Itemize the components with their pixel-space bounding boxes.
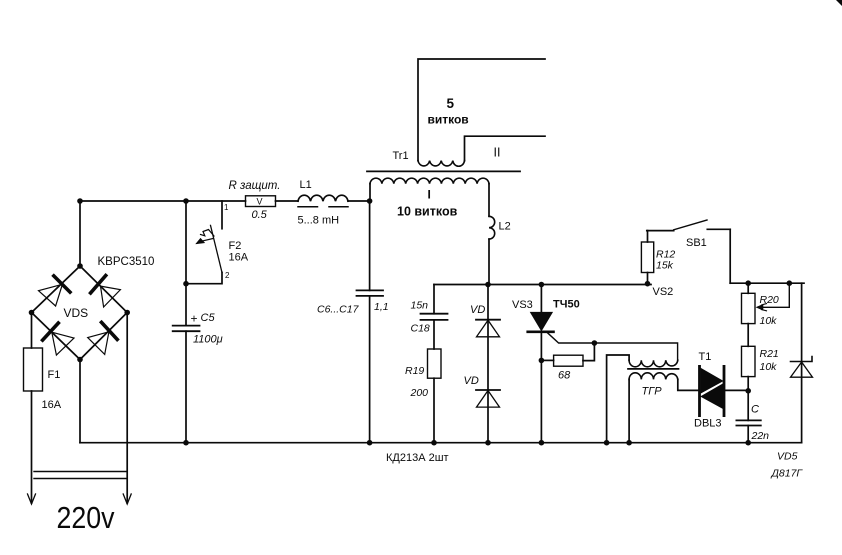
bridge diode D-topright triangle	[101, 286, 121, 307]
svg-text:R19: R19	[405, 365, 424, 377]
svg-text:1: 1	[224, 203, 229, 212]
diac T1 lower triangle	[701, 384, 723, 409]
diac T1 DBL3 right electrode	[723, 366, 726, 415]
node: primary/L1	[367, 198, 373, 204]
svg-text:Д817Г: Д817Г	[771, 468, 804, 480]
svg-text:C6...C17: C6...C17	[317, 304, 360, 316]
svg-text:68: 68	[558, 370, 571, 382]
node VS2	[645, 281, 651, 287]
wire: R19 to bottom bus	[433, 378, 435, 443]
node: bottom bus TGR-a	[604, 440, 610, 446]
wire: left AC leg down to fuse	[31, 313, 33, 349]
wire: resonant cap branch upper	[369, 201, 371, 290]
arrowhead right 220v	[123, 494, 131, 504]
bridge diode D-topleft triangle	[39, 284, 63, 306]
capacitor C plates	[736, 419, 760, 421]
svg-text:10k: 10k	[760, 361, 778, 373]
node: L1 bus left	[77, 198, 83, 204]
node: bridge right	[124, 310, 130, 316]
resistor R20 body	[742, 293, 756, 323]
wire: R12 bottom to node VS2	[647, 273, 649, 284]
fuse F1 body	[24, 348, 43, 391]
svg-text:10k: 10k	[760, 315, 778, 327]
svg-text:SB1: SB1	[686, 237, 707, 249]
bridge diode D-topleft bar	[54, 276, 70, 292]
node: R21 / diac / C	[745, 388, 751, 394]
wire: C5 vertical x=186 upper	[185, 201, 187, 326]
thyristor VS3 triangle	[531, 312, 553, 330]
svg-text:T1: T1	[699, 351, 712, 363]
svg-text:220v: 220v	[57, 500, 115, 535]
resistor 68 left lead	[541, 359, 553, 361]
transformer Tr1 core line	[367, 170, 520, 172]
switch SB1 left contact	[647, 230, 674, 232]
resistor 68 body	[554, 355, 583, 366]
svg-text:200: 200	[410, 387, 429, 399]
node: wiper top	[787, 280, 793, 286]
node: bottom bus TGR-b	[626, 440, 632, 446]
capacitor C6...C17 plates	[357, 289, 384, 291]
svg-text:16A: 16A	[42, 399, 62, 411]
svg-text:VD5: VD5	[777, 451, 798, 463]
wire: diac right lead	[724, 389, 748, 391]
node: bottom bus R19	[431, 440, 437, 446]
svg-text:15k: 15k	[656, 260, 674, 272]
node: F2 return on C5 line	[183, 281, 189, 287]
wire: C18 branch corner down	[433, 285, 435, 314]
svg-text:C: C	[751, 404, 759, 416]
diode VD lower triangle	[477, 391, 500, 408]
node: bottom bus VD	[485, 440, 491, 446]
svg-text:витков: витков	[428, 113, 469, 127]
node: bridge bottom	[77, 357, 83, 363]
svg-text:10 витков: 10 витков	[397, 205, 458, 219]
zener VD5 cathode bar with tick	[791, 357, 813, 362]
svg-text:КД213А 2шт: КД213А 2шт	[386, 452, 449, 464]
wire: R12 top lead	[647, 231, 649, 242]
svg-text:22n: 22n	[751, 430, 770, 442]
wire: fuse to connector / arrow shaft	[31, 391, 33, 503]
resistor 68 right lead up to gate node	[583, 343, 594, 361]
wire: bottom bus	[80, 442, 802, 444]
wire: primary left leg	[369, 184, 371, 201]
connector plug bars	[34, 471, 127, 473]
diode VD lower bar	[476, 389, 500, 391]
svg-text:1,1: 1,1	[374, 301, 389, 313]
svg-text:VDS: VDS	[64, 306, 89, 320]
breaker F2 hook actuator	[201, 230, 215, 237]
wire: box to L1	[276, 200, 299, 202]
node: bottom bus VS3	[539, 440, 545, 446]
svg-text:I: I	[428, 188, 431, 202]
inductor L1 coil	[298, 195, 348, 201]
wire: vertical x=80 down to bridge top	[79, 201, 81, 266]
node: bottom bus C6 branch	[367, 440, 373, 446]
resistor R21 body	[742, 346, 756, 376]
wire: C bottom	[747, 426, 749, 443]
arrowhead left 220v	[28, 494, 36, 504]
node: bottom bus C5	[183, 440, 189, 446]
svg-text:2: 2	[225, 271, 230, 280]
wire: SB1 right leg down	[729, 229, 731, 283]
svg-text:V: V	[257, 197, 263, 207]
svg-text:KBPC3510: KBPC3510	[98, 256, 155, 268]
breaker F2 blade	[211, 225, 223, 272]
svg-text:F1: F1	[48, 369, 61, 381]
node: bridge top	[77, 263, 83, 269]
svg-text:VS2: VS2	[653, 286, 674, 298]
switch SB1 right contact	[707, 228, 730, 230]
wire: mid horizontal bus y=284.5	[434, 284, 651, 286]
wire: L1 to primary node	[348, 200, 370, 202]
svg-text:+: +	[191, 312, 198, 326]
svg-text:C18: C18	[411, 323, 430, 335]
svg-text:C5: C5	[201, 312, 216, 324]
wire: secondary right leg and second output	[465, 136, 546, 160]
wire: L2 down to mid bus	[488, 239, 490, 284]
svg-text:R защит.: R защит.	[229, 180, 281, 192]
inductor L1 core dashes	[298, 206, 318, 208]
svg-text:16A: 16A	[229, 252, 249, 264]
thyristor VS3 anode lead	[540, 285, 542, 313]
wire: right AC leg down	[126, 313, 128, 504]
bridge diode D-bottomright bar	[102, 322, 118, 339]
wire: secondary left leg up and top output	[418, 59, 545, 161]
node: mid bus / VS3	[539, 282, 545, 288]
wire: TGR upper-left jog down to bottom bus	[607, 355, 630, 443]
svg-text:VD: VD	[470, 304, 485, 316]
wire: C5 vertical lower	[185, 331, 187, 443]
node: gate / 68	[592, 340, 598, 346]
diode VD upper triangle	[477, 320, 500, 337]
wire: VD column vertical	[487, 285, 489, 443]
svg-text:ТЧ50: ТЧ50	[553, 299, 580, 311]
wire: TGR lower-left leg to bottom bus	[628, 379, 630, 442]
node: VS3 cathode / 68	[539, 358, 545, 364]
wire: upper-right bus to zener top	[730, 282, 804, 284]
wire: primary right leg to L2	[488, 184, 490, 217]
svg-text:R20: R20	[760, 294, 779, 306]
resistor R-protect box	[246, 196, 276, 207]
svg-text:L2: L2	[499, 221, 511, 233]
transformer Tr1 secondary winding II	[418, 161, 465, 167]
wire: zener VD5 vertical	[801, 283, 803, 443]
bridge diode D-bottomright triangle	[88, 332, 109, 355]
corner artifact mark	[836, 0, 842, 6]
svg-text:5: 5	[447, 96, 455, 111]
node: R20 top	[745, 280, 751, 286]
thyristor VS3 gate lead	[548, 333, 678, 360]
svg-text:15n: 15n	[411, 300, 429, 312]
svg-text:VD: VD	[464, 375, 479, 387]
bridge diode D-bottomleft bar	[43, 323, 59, 340]
node: bottom bus C	[745, 440, 751, 446]
wire: resonant cap branch lower	[369, 296, 371, 443]
breaker F2 terminal 1 drop	[221, 201, 223, 229]
node: C5 top	[183, 198, 189, 204]
potentiometer R20 wiper wire	[760, 283, 789, 307]
transformer TGR lower winding	[629, 373, 678, 380]
wire: C18 to R19	[433, 320, 435, 349]
wire: TGR lower-right leg to diac	[678, 379, 700, 390]
node: mid bus / L2	[485, 282, 491, 288]
switch SB1 blade	[674, 220, 707, 230]
thyristor VS3 cathode bar	[528, 330, 554, 333]
transformer TGR upper winding	[629, 360, 678, 367]
wire: R20 to R21	[747, 324, 749, 347]
svg-text:5...8 mH: 5...8 mH	[298, 215, 340, 227]
bridge diode D-topright bar	[91, 276, 106, 293]
svg-text:1100μ: 1100μ	[193, 334, 223, 346]
potentiometer R20 wiper arrowhead	[756, 304, 763, 310]
svg-text:L1: L1	[300, 179, 312, 191]
diode bridge VDS KBPC3510 : diamond	[32, 266, 128, 360]
svg-text:ТГР: ТГР	[642, 386, 663, 398]
wire: VS3 cathode down to bottom bus	[540, 332, 542, 443]
wire: bridge bottom to ground bus	[79, 360, 81, 443]
node: bridge left	[29, 310, 35, 316]
transformer TGR core line	[628, 368, 679, 370]
wire: top-left horizontal bus y=201	[80, 200, 246, 202]
capacitor C18 plates	[421, 313, 448, 315]
transformer Tr1 primary winding I	[370, 178, 489, 184]
zener VD5 triangle	[791, 362, 813, 377]
bridge diode D-bottomleft triangle	[52, 332, 74, 355]
capacitor C5 plates	[173, 325, 200, 327]
diac T1 DBL3 left electrode	[698, 366, 701, 415]
wire: R21 bottom to node	[747, 377, 749, 421]
svg-text:F2: F2	[229, 240, 242, 252]
resistor R12 body	[641, 242, 653, 273]
diac T1 upper triangle	[701, 369, 723, 394]
svg-text:II: II	[494, 146, 501, 160]
inductor L2	[489, 216, 495, 239]
wire: R20 top stub	[747, 283, 749, 293]
breaker F2 terminal 2 and return wire	[186, 273, 222, 284]
svg-text:0.5: 0.5	[252, 209, 268, 221]
svg-text:DBL3: DBL3	[694, 418, 722, 430]
svg-text:R21: R21	[760, 348, 779, 360]
resistor R19 body	[428, 349, 442, 378]
svg-text:VS3: VS3	[512, 299, 533, 311]
diode VD upper bar	[476, 319, 500, 321]
breaker F2 hook arrow	[201, 239, 213, 242]
svg-text:Tr1: Tr1	[393, 150, 409, 162]
